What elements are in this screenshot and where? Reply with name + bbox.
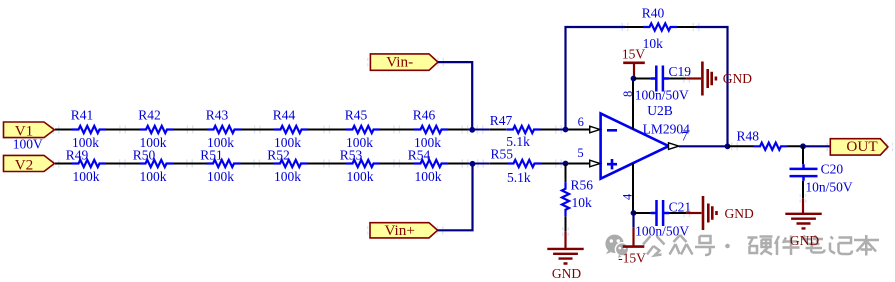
wire stub R54 to node	[467, 163, 490, 165]
wire Vin- to node	[438, 62, 472, 130]
svg-text:R48: R48	[736, 128, 759, 143]
svg-text:R55: R55	[491, 147, 514, 162]
flag OUT	[830, 138, 888, 155]
watermark text 公众号 · 硬件笔记本	[643, 235, 879, 256]
svg-text:R47: R47	[490, 113, 513, 128]
resistor R48	[728, 128, 803, 150]
node junction Vin-	[469, 127, 475, 133]
resistor R40	[625, 6, 696, 51]
wire stub R47 to node	[559, 129, 566, 131]
wire stub R55 to node	[559, 163, 566, 165]
node junction pin8	[631, 76, 637, 82]
wire to OUT flag	[803, 145, 830, 147]
号	[695, 236, 715, 255]
svg-text:GND: GND	[552, 266, 581, 281]
flag Vin-	[370, 53, 438, 70]
svg-text:R49: R49	[66, 147, 89, 162]
svg-text:R54: R54	[408, 147, 431, 162]
resistor R56	[562, 164, 593, 232]
ground C21	[686, 196, 754, 230]
svg-text:R45: R45	[345, 107, 368, 122]
svg-text:100k: 100k	[415, 169, 442, 184]
svg-text:C20: C20	[821, 161, 844, 176]
resistor R52	[267, 147, 307, 184]
wire top row black pins	[55, 129, 590, 131]
svg-text:R44: R44	[273, 107, 296, 122]
svg-text:R53: R53	[340, 147, 363, 162]
svg-text:R50: R50	[133, 147, 156, 162]
本	[854, 235, 879, 256]
pin 5 arrow	[577, 146, 600, 167]
svg-text:100n/50V: 100n/50V	[635, 224, 689, 239]
svg-text:8: 8	[621, 91, 635, 97]
公	[643, 236, 665, 256]
resistor R51	[200, 147, 240, 184]
svg-text:4: 4	[621, 193, 635, 200]
resistor R45	[345, 107, 380, 150]
resistor R41	[71, 107, 106, 150]
node junction C20	[800, 143, 806, 149]
svg-text:15V: 15V	[622, 47, 646, 62]
wire feedback loop	[566, 27, 728, 146]
resistor R46	[413, 107, 448, 150]
svg-text:R56: R56	[571, 178, 594, 193]
svg-text:7: 7	[681, 130, 687, 144]
svg-text:100n/50V: 100n/50V	[635, 87, 689, 102]
svg-text:GND: GND	[725, 206, 754, 221]
resistor R50	[133, 147, 173, 184]
svg-text:R52: R52	[267, 147, 290, 162]
记	[830, 237, 852, 255]
power 15V	[622, 47, 646, 79]
svg-text:-15V: -15V	[618, 251, 646, 266]
svg-text:100V: 100V	[13, 136, 43, 151]
resistor R44	[273, 107, 308, 150]
flag V2	[4, 155, 55, 173]
watermark wechat icon	[605, 235, 628, 258]
resistor R42	[138, 107, 173, 150]
svg-text:Vin+: Vin+	[384, 222, 414, 239]
svg-text:10k: 10k	[572, 195, 593, 210]
svg-text:R43: R43	[206, 107, 229, 122]
resistor R43	[206, 107, 241, 150]
svg-text:100k: 100k	[73, 169, 100, 184]
resistor R47	[490, 113, 541, 149]
svg-text:5.1k: 5.1k	[507, 170, 531, 185]
wire Vin+ to node	[438, 164, 473, 230]
svg-text:R42: R42	[138, 107, 161, 122]
svg-text:C19: C19	[669, 64, 692, 79]
resistor R55	[491, 147, 541, 186]
笔	[802, 236, 825, 253]
pin 4 wire	[621, 163, 635, 213]
node junction R56 top	[563, 161, 569, 167]
svg-text:10k: 10k	[643, 36, 664, 51]
svg-text:Vin-: Vin-	[386, 53, 413, 70]
resistor R49	[66, 147, 106, 184]
resistor R54	[408, 147, 448, 184]
svg-text:R41: R41	[71, 107, 94, 122]
svg-text:R40: R40	[642, 6, 665, 21]
pin 6 arrow	[578, 115, 600, 133]
pin 8 wire	[621, 79, 635, 129]
power -15V	[618, 213, 646, 266]
svg-text:100k: 100k	[207, 169, 234, 184]
件	[775, 236, 800, 256]
svg-text:10n/50V: 10n/50V	[805, 180, 853, 195]
svg-text:V2: V2	[15, 156, 34, 173]
capacitor C19	[634, 64, 692, 102]
ground C20	[785, 198, 821, 248]
svg-text:100k: 100k	[140, 169, 167, 184]
svg-text:U2B: U2B	[647, 103, 673, 118]
svg-text:R51: R51	[200, 147, 223, 162]
svg-text:6: 6	[578, 115, 584, 129]
node junction Vin+	[470, 161, 476, 167]
svg-text:5: 5	[577, 146, 583, 160]
resistor R53	[340, 147, 380, 184]
硬	[748, 237, 773, 255]
flag V1	[4, 122, 55, 140]
众	[670, 235, 693, 255]
flag Vin+	[370, 222, 438, 239]
ground C19	[686, 62, 752, 96]
node junction pin4	[631, 210, 637, 216]
ground below R56	[547, 232, 583, 281]
svg-text:GND: GND	[723, 71, 752, 86]
wire output	[679, 145, 728, 147]
svg-text:100k: 100k	[274, 169, 301, 184]
wire bottom row black pins	[55, 163, 590, 165]
svg-text:GND: GND	[790, 233, 819, 248]
svg-text:R46: R46	[413, 107, 436, 122]
svg-text:100k: 100k	[347, 169, 374, 184]
svg-text:OUT: OUT	[846, 138, 878, 155]
node junction feedback left	[563, 127, 569, 133]
capacitor C21	[634, 199, 692, 238]
pin 7 arrow output	[669, 130, 688, 150]
op-amp U2B	[601, 103, 691, 179]
wire stub R46 to node	[467, 129, 489, 131]
capacitor C20	[790, 146, 853, 198]
node junction feedback right	[725, 143, 731, 149]
dot	[725, 244, 730, 249]
